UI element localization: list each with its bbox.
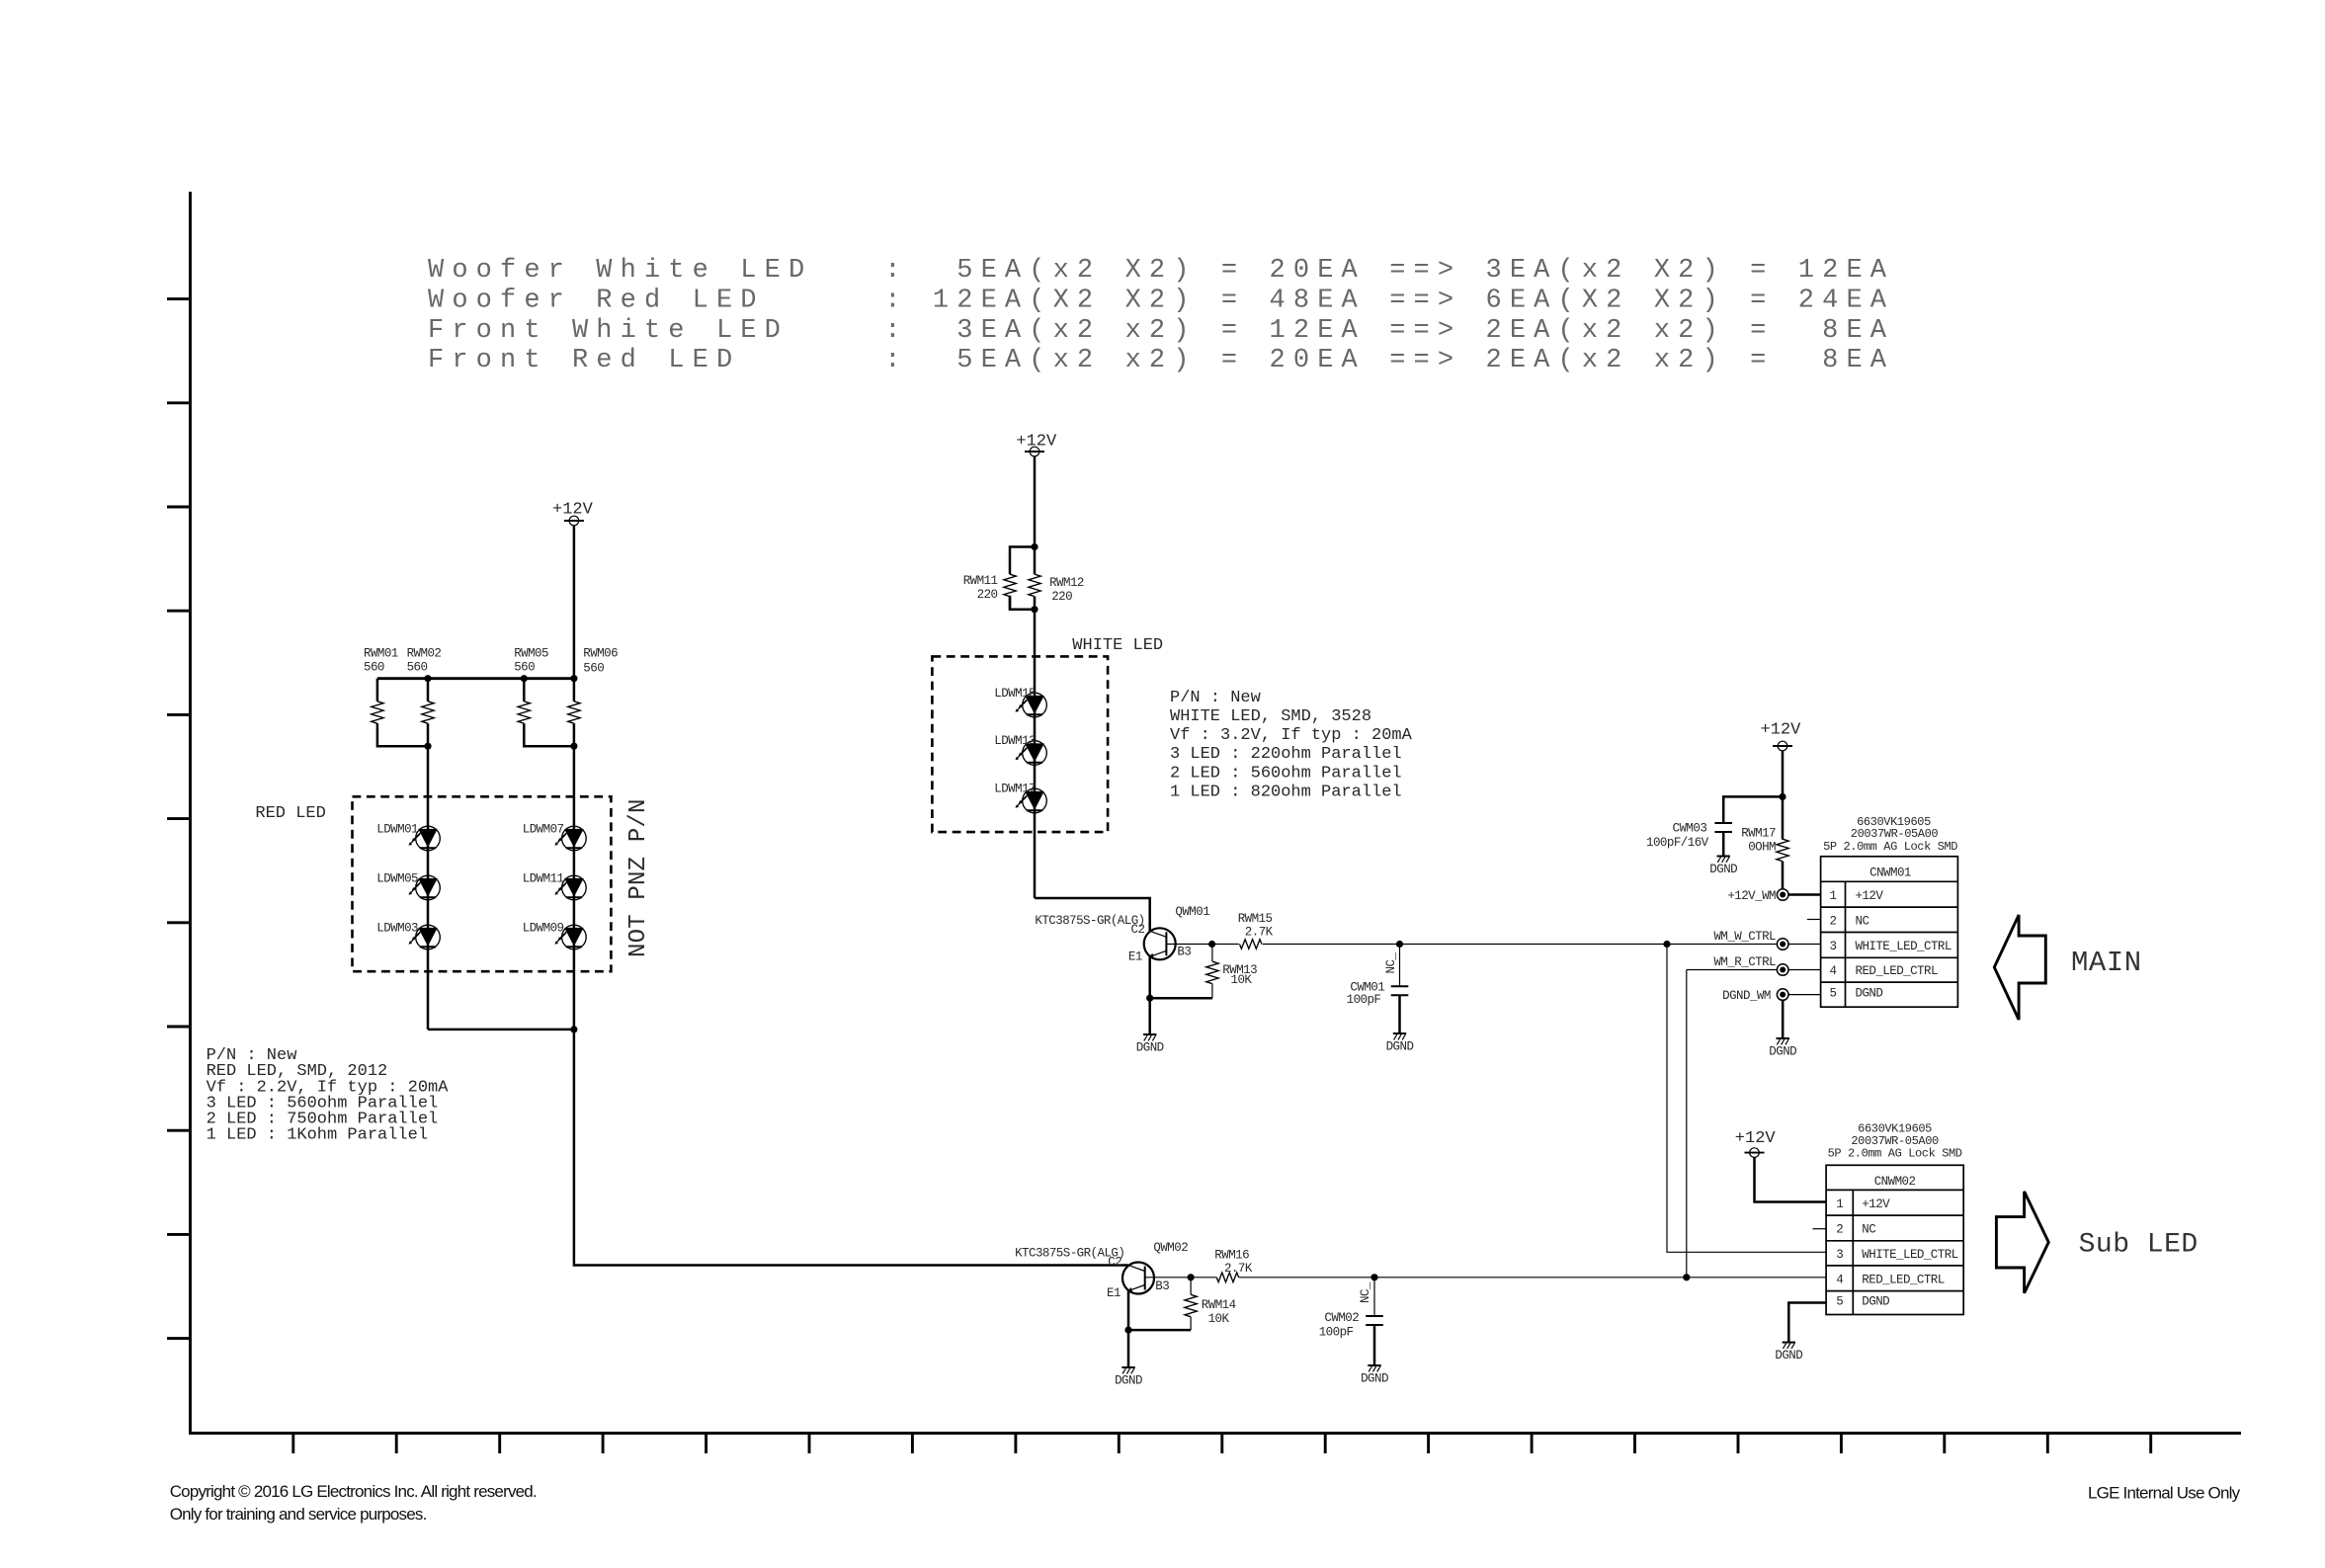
wire pad to CNWM01 pin1 bbox=[1788, 893, 1821, 896]
junction RWM01/RWM02 bottom bbox=[424, 743, 431, 750]
wire DGND_WM pad down bbox=[1782, 1000, 1785, 1038]
power symbol +12V (red LED section) bbox=[552, 501, 594, 526]
transistor QWM02 KTC3875S-GR(ALG) bbox=[1015, 1241, 1188, 1300]
svg-text:560: 560 bbox=[583, 661, 604, 675]
svg-text:1 LED : 1Kohm Parallel: 1 LED : 1Kohm Parallel bbox=[207, 1126, 428, 1145]
note white LED part info bbox=[1170, 689, 1413, 802]
capacitor CWM03 100pF/16V bbox=[1646, 822, 1732, 857]
svg-text:Sub LED: Sub LED bbox=[2079, 1229, 2199, 1260]
junction bus at RWM02 bbox=[424, 675, 431, 682]
svg-text:2.7K: 2.7K bbox=[1245, 926, 1274, 940]
svg-text:WHITE_LED_CTRL: WHITE_LED_CTRL bbox=[1862, 1248, 1957, 1262]
svg-text:CNWM01: CNWM01 bbox=[1869, 867, 1911, 880]
svg-text:LDWM17: LDWM17 bbox=[994, 783, 1036, 796]
svg-text:RWM11: RWM11 bbox=[963, 574, 998, 588]
wire white LED column to QWM01 collector bbox=[1035, 898, 1150, 931]
svg-text:LDWM05: LDWM05 bbox=[376, 872, 418, 886]
wire WM_R_CTRL drop to Sub LED net bbox=[1686, 970, 1688, 1278]
resistor RWM02 560 bbox=[407, 647, 442, 747]
svg-text:LDWM15: LDWM15 bbox=[994, 687, 1036, 701]
resistor RWM01 560 bbox=[364, 647, 398, 747]
LED LDWM01 bbox=[376, 823, 440, 851]
arrow MAIN bbox=[1994, 915, 2045, 1020]
svg-text:560: 560 bbox=[514, 660, 535, 674]
svg-text:5P 2.0mm AG Lock SMD: 5P 2.0mm AG Lock SMD bbox=[1823, 840, 1957, 854]
junction RWM11/RWM12 bottom bbox=[1031, 606, 1038, 613]
ground DGND (QWM02 emitter) bbox=[1115, 1367, 1142, 1388]
svg-text:20037WR-05A00: 20037WR-05A00 bbox=[1851, 827, 1939, 841]
svg-text:+12V: +12V bbox=[1735, 1129, 1777, 1148]
svg-text:Only for training and service: Only for training and service purposes. bbox=[170, 1505, 427, 1524]
svg-text:B3: B3 bbox=[1177, 945, 1191, 958]
svg-text:CNWM02: CNWM02 bbox=[1874, 1175, 1916, 1189]
ground DGND (CNWM02 pin5) bbox=[1775, 1343, 1802, 1363]
wire +12V down to RWM17 bbox=[1782, 751, 1785, 840]
svg-text:Copyright © 2016 LG Electronic: Copyright © 2016 LG Electronics Inc. All… bbox=[170, 1482, 537, 1501]
svg-text:100pF: 100pF bbox=[1319, 1325, 1354, 1339]
wire left LED column bbox=[427, 746, 430, 1030]
junction RWM11/RWM12 top bbox=[1031, 543, 1038, 550]
svg-text:E1: E1 bbox=[1128, 949, 1142, 963]
svg-text:NC_: NC_ bbox=[1384, 952, 1398, 974]
svg-text:1: 1 bbox=[1830, 889, 1837, 903]
resistor RWM17 0OHM bbox=[1741, 827, 1788, 889]
svg-text:C2: C2 bbox=[1131, 923, 1145, 937]
wire QWM01 emitter down bbox=[1148, 956, 1151, 1034]
svg-text:5P 2.0mm AG Lock SMD: 5P 2.0mm AG Lock SMD bbox=[1828, 1147, 1962, 1161]
svg-text:QWM01: QWM01 bbox=[1175, 905, 1209, 919]
svg-text:C2: C2 bbox=[1108, 1255, 1121, 1269]
resistor RWM16 2.7K bbox=[1214, 1249, 1253, 1282]
resistor RWM13 10K bbox=[1206, 945, 1257, 999]
ground DGND (QWM01 emitter) bbox=[1136, 1034, 1164, 1055]
wire CNWM02 pin5 to DGND bbox=[1788, 1303, 1826, 1343]
wire left column bottom to right column bbox=[428, 1029, 574, 1032]
connector CNWM01 6630VK19605 bbox=[1821, 815, 1958, 1007]
svg-text:560: 560 bbox=[407, 660, 428, 674]
wire WM_R_CTRL net to drop line bbox=[1687, 969, 1778, 971]
svg-text:DGND: DGND bbox=[1862, 1295, 1889, 1309]
svg-text:WM_R_CTRL: WM_R_CTRL bbox=[1713, 955, 1776, 969]
svg-text:3: 3 bbox=[1830, 940, 1837, 953]
svg-text:100pF/16V: 100pF/16V bbox=[1646, 836, 1709, 850]
svg-text:RWM14: RWM14 bbox=[1202, 1298, 1236, 1312]
svg-text:RWM17: RWM17 bbox=[1741, 827, 1776, 841]
sheet frame bottom ruler ticks bbox=[293, 1434, 2151, 1454]
svg-text:LDWM09: LDWM09 bbox=[523, 922, 564, 936]
dashed box WHITE LED group bbox=[932, 656, 1108, 832]
ground DGND (CWM03) bbox=[1709, 857, 1737, 877]
junction LED columns join bbox=[570, 1026, 577, 1032]
svg-text:Vf : 3.2V, If typ : 20mA: Vf : 3.2V, If typ : 20mA bbox=[1170, 726, 1413, 745]
svg-text:1: 1 bbox=[1836, 1197, 1843, 1211]
junction base/RWM13 bbox=[1208, 941, 1215, 948]
wire pad to CNWM01 pin4 bbox=[1788, 969, 1821, 971]
pad DGND_WM bbox=[1722, 989, 1788, 1003]
svg-text:220: 220 bbox=[977, 588, 998, 602]
junction emitter/RWM14 bbox=[1124, 1327, 1131, 1334]
svg-text:RWM16: RWM16 bbox=[1214, 1249, 1249, 1263]
svg-text:2 LED : 560ohm Parallel: 2 LED : 560ohm Parallel bbox=[1170, 764, 1402, 783]
power symbol +12V (CNWM01) bbox=[1761, 720, 1802, 751]
LED LDWM17 bbox=[994, 783, 1046, 813]
svg-text:100pF: 100pF bbox=[1347, 993, 1381, 1007]
LED LDWM13 bbox=[994, 734, 1046, 765]
wire RWM05 bottom to RWM06 column bbox=[524, 745, 574, 746]
resistor RWM12 220 bbox=[1029, 574, 1084, 604]
pad WM_W_CTRL bbox=[1713, 930, 1788, 949]
svg-text:NC: NC bbox=[1862, 1223, 1875, 1237]
svg-text:+12V: +12V bbox=[1761, 720, 1802, 739]
wire emitter to RWM13 bottom bbox=[1150, 997, 1212, 1000]
svg-text:+12V_WM: +12V_WM bbox=[1727, 889, 1776, 903]
resistor RWM05 560 bbox=[514, 647, 548, 747]
svg-text:RED LED: RED LED bbox=[255, 804, 325, 823]
svg-text:DGND_WM: DGND_WM bbox=[1722, 989, 1771, 1003]
junction CWM01 tap bbox=[1396, 941, 1403, 948]
svg-text:RWM15: RWM15 bbox=[1238, 912, 1273, 926]
arrow Sub LED bbox=[1996, 1192, 2048, 1293]
svg-text:WHITE_LED_CTRL: WHITE_LED_CTRL bbox=[1856, 940, 1951, 953]
svg-text:CWM03: CWM03 bbox=[1673, 822, 1707, 836]
wire QWM02 base to RWM16 bbox=[1145, 1277, 1217, 1279]
svg-text:LDWM11: LDWM11 bbox=[523, 872, 564, 886]
svg-text:LDWM13: LDWM13 bbox=[994, 734, 1036, 748]
junction CWM03 tap bbox=[1779, 793, 1785, 800]
svg-text:RWM02: RWM02 bbox=[407, 647, 442, 661]
junction CWM02 tap bbox=[1370, 1274, 1377, 1280]
svg-text:RED_LED_CTRL: RED_LED_CTRL bbox=[1862, 1273, 1944, 1286]
junction WM_W_CTRL to CNWM02 drop bbox=[1663, 941, 1670, 948]
wire pad to CNWM01 pin3 bbox=[1788, 944, 1821, 946]
power symbol +12V (white LED section) bbox=[1016, 433, 1057, 456]
wire +12V to CNWM02 pin1 bbox=[1755, 1157, 1827, 1201]
sheet frame left ruler ticks bbox=[167, 299, 191, 1339]
wire RWM16 to CNWM02 pin4 (Sub LED red net) bbox=[1239, 1277, 1827, 1279]
svg-text:0OHM: 0OHM bbox=[1748, 840, 1776, 854]
svg-text:Front White LED : 3EA(x2 x: Front White LED : 3EA(x2 x2) = 12EA ==> … bbox=[428, 316, 1887, 346]
wire RWM01 bottom to RWM02 column bbox=[377, 745, 428, 746]
svg-text:+12V: +12V bbox=[552, 501, 594, 520]
wire pad to CNWM01 pin5 bbox=[1788, 994, 1821, 996]
svg-text:E1: E1 bbox=[1107, 1286, 1121, 1300]
svg-text:+12V: +12V bbox=[1862, 1197, 1890, 1211]
resistor RWM11 220 bbox=[963, 561, 1016, 610]
svg-text:P/N : New: P/N : New bbox=[1170, 689, 1262, 707]
LED LDWM09 bbox=[523, 922, 586, 949]
ground DGND (DGND_WM) bbox=[1769, 1038, 1796, 1059]
transistor QWM01 KTC3875S-GR(ALG) bbox=[1035, 905, 1209, 963]
svg-text:LGE Internal Use Only: LGE Internal Use Only bbox=[2088, 1484, 2241, 1503]
power symbol +12V (CNWM02) bbox=[1735, 1129, 1777, 1157]
wire to CWM03 bbox=[1723, 796, 1783, 823]
LED LDWM15 bbox=[994, 687, 1046, 717]
svg-text:QWM02: QWM02 bbox=[1153, 1241, 1188, 1255]
LED LDWM03 bbox=[376, 922, 440, 949]
LED LDWM07 bbox=[523, 823, 586, 851]
note red LED part info bbox=[207, 1046, 450, 1145]
resistor RWM14 10K bbox=[1185, 1278, 1236, 1330]
wire emitter to RWM14 bottom bbox=[1128, 1329, 1191, 1332]
svg-text:Woofer White LED : 5EA(x2 X: Woofer White LED : 5EA(x2 X2) = 20EA ==>… bbox=[428, 256, 1887, 286]
svg-text:WHITE LED: WHITE LED bbox=[1072, 636, 1163, 655]
wire QWM02 emitter down bbox=[1127, 1291, 1130, 1368]
svg-text:2: 2 bbox=[1836, 1223, 1843, 1237]
wire +12V down to resistor bus bbox=[573, 526, 576, 679]
svg-text:+12V: +12V bbox=[1016, 433, 1057, 452]
svg-text:RWM01: RWM01 bbox=[364, 647, 398, 661]
resistor RWM06 560 bbox=[568, 647, 618, 747]
svg-text:RWM06: RWM06 bbox=[583, 647, 618, 661]
svg-text:5: 5 bbox=[1830, 987, 1837, 1001]
wire white LED column bbox=[1034, 610, 1037, 898]
svg-text:2.7K: 2.7K bbox=[1224, 1262, 1253, 1276]
wire RWM15 to CNWM01 pin3 pad (WM_W_CTRL net) bbox=[1263, 944, 1778, 946]
svg-text:B3: B3 bbox=[1155, 1279, 1169, 1293]
resistor RWM15 2.7K bbox=[1238, 912, 1274, 949]
svg-text:NC: NC bbox=[1856, 914, 1869, 928]
ground DGND (CWM01) bbox=[1386, 1033, 1414, 1054]
svg-text:4: 4 bbox=[1836, 1273, 1843, 1286]
stub NC pin2 (CNWM02) bbox=[1813, 1228, 1827, 1230]
svg-text:+12V: +12V bbox=[1856, 889, 1884, 903]
svg-text:RWM12: RWM12 bbox=[1049, 576, 1084, 590]
junction WM_R_CTRL drop bbox=[1683, 1274, 1690, 1280]
svg-text:LDWM01: LDWM01 bbox=[376, 823, 418, 837]
svg-text:CWM02: CWM02 bbox=[1324, 1311, 1359, 1325]
dashed box RED LED group bbox=[353, 796, 612, 971]
wire QWM01 base to RWM15 bbox=[1166, 944, 1238, 946]
junction bus at RWM05 bbox=[521, 675, 528, 682]
pad +12V_WM bbox=[1727, 889, 1788, 903]
svg-text:10K: 10K bbox=[1208, 1312, 1230, 1326]
svg-text:560: 560 bbox=[364, 660, 384, 674]
junction bus at RWM06 bbox=[570, 675, 577, 682]
wire RWM11 bottom branch bbox=[1010, 596, 1035, 610]
svg-text:LDWM03: LDWM03 bbox=[376, 922, 418, 936]
wire RWM11 top branch bbox=[1010, 547, 1035, 562]
wire right LED column bbox=[573, 746, 576, 1265]
svg-text:10K: 10K bbox=[1231, 973, 1253, 987]
svg-text:220: 220 bbox=[1051, 590, 1072, 604]
svg-text:WHITE LED, SMD, 3528: WHITE LED, SMD, 3528 bbox=[1170, 707, 1371, 726]
sheet frame left border line bbox=[189, 192, 192, 1435]
svg-text:NOT PNZ P/N: NOT PNZ P/N bbox=[625, 798, 652, 957]
svg-text:LDWM07: LDWM07 bbox=[523, 823, 564, 837]
LED LDWM05 bbox=[376, 872, 440, 900]
capacitor CWM01 100pF bbox=[1347, 945, 1409, 1034]
wire resistor top bus bbox=[377, 677, 574, 680]
wire red LED column to QWM02 collector bbox=[574, 1264, 1128, 1267]
connector CNWM02 6630VK19605 bbox=[1826, 1122, 1963, 1315]
svg-text:RED_LED_CTRL: RED_LED_CTRL bbox=[1856, 964, 1938, 978]
ground DGND (CWM02) bbox=[1361, 1365, 1388, 1386]
junction RWM05/RWM06 bottom bbox=[570, 743, 577, 750]
svg-text:5: 5 bbox=[1836, 1295, 1843, 1309]
svg-text:1 LED : 820ohm Parallel: 1 LED : 820ohm Parallel bbox=[1170, 783, 1402, 801]
sheet frame bottom border line bbox=[191, 1432, 2242, 1435]
LED LDWM11 bbox=[523, 872, 586, 900]
svg-text:MAIN: MAIN bbox=[2071, 947, 2142, 979]
svg-text:WM_W_CTRL: WM_W_CTRL bbox=[1713, 930, 1776, 944]
pad WM_R_CTRL bbox=[1713, 955, 1788, 975]
junction base/RWM14 bbox=[1188, 1274, 1195, 1280]
svg-text:3 LED : 220ohm Parallel: 3 LED : 220ohm Parallel bbox=[1170, 745, 1402, 764]
stub NC pin2 bbox=[1807, 919, 1821, 921]
wire WM_W_CTRL drop to CNWM02 pin3 bbox=[1667, 945, 1826, 1253]
svg-text:NC_: NC_ bbox=[1359, 1281, 1372, 1303]
wire +12V down to RWM11/12 pair bbox=[1034, 456, 1037, 574]
capacitor CWM02 100pF bbox=[1319, 1278, 1383, 1365]
svg-text:Woofer Red LED : 12EA(X2 X: Woofer Red LED : 12EA(X2 X2) = 48EA ==> … bbox=[428, 286, 1887, 315]
svg-text:4: 4 bbox=[1830, 964, 1837, 978]
svg-text:KTC3875S-GR(ALG): KTC3875S-GR(ALG) bbox=[1035, 914, 1144, 928]
svg-text:2: 2 bbox=[1830, 914, 1837, 928]
svg-text:3: 3 bbox=[1836, 1248, 1843, 1262]
junction emitter/RWM13 bbox=[1146, 995, 1153, 1002]
svg-text:DGND: DGND bbox=[1856, 987, 1883, 1001]
svg-text:Front Red LED : 5EA(x2 x: Front Red LED : 5EA(x2 x2) = 20EA ==> 2E… bbox=[428, 346, 1887, 375]
svg-text:RWM05: RWM05 bbox=[514, 647, 548, 661]
